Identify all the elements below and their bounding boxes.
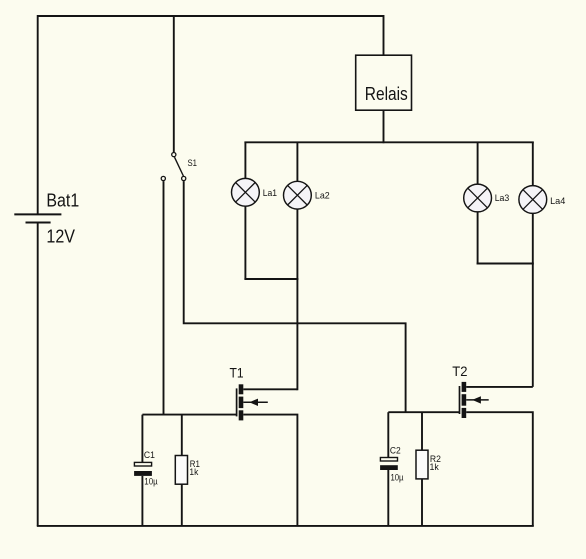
- svg-text:10µ: 10µ: [391, 471, 404, 482]
- wire S1 top feed: [173, 16, 175, 152]
- capacitor C2: [380, 412, 398, 526]
- relay U1 "Relais" box: [356, 55, 412, 110]
- lamp La4: [519, 142, 547, 387]
- transistor T1 (n-channel MOSFET): [237, 384, 268, 420]
- resistor R1: [175, 415, 187, 526]
- wire bracket joining La1 and La2 bottoms: [244, 278, 298, 280]
- svg-text:Bat1: Bat1: [46, 189, 79, 210]
- svg-text:La2: La2: [315, 189, 330, 200]
- svg-text:C1: C1: [144, 449, 155, 460]
- svg-text:T1: T1: [230, 366, 244, 381]
- lamp La3: [464, 142, 492, 264]
- wire top rail from battery to relay: [38, 16, 384, 214]
- wire bracket joining La3 and La4 bottoms: [477, 263, 534, 265]
- transistor T2 (n-channel MOSFET): [460, 382, 489, 418]
- wire bottom rail: [37, 525, 534, 527]
- svg-text:S1: S1: [188, 157, 198, 168]
- resistor R2: [416, 412, 428, 526]
- capacitor C1: [134, 415, 152, 526]
- switch S1: [161, 153, 186, 181]
- wire T1 source to down lead: [243, 415, 297, 526]
- wire S1 left contact down to gate net of T1: [163, 181, 165, 415]
- svg-text:C2: C2: [390, 445, 401, 456]
- battery Bat1: [14, 214, 61, 222]
- wire T2 gate net horizontal: [388, 411, 459, 413]
- svg-text:La4: La4: [550, 195, 565, 206]
- lamp La2: [284, 142, 312, 390]
- svg-text:La1: La1: [263, 187, 277, 198]
- lamp La1: [232, 142, 260, 279]
- wire T2 drain to La4 branch: [466, 386, 533, 388]
- svg-text:T2: T2: [452, 364, 467, 379]
- svg-text:Relais: Relais: [365, 83, 408, 104]
- svg-text:La3: La3: [495, 192, 510, 203]
- wire T1 gate net horizontal: [142, 414, 236, 416]
- svg-text:12V: 12V: [46, 227, 75, 247]
- wire battery minus to bottom rail: [37, 223, 39, 526]
- svg-text:10µ: 10µ: [144, 476, 158, 487]
- wire T1 drain to La2 branch: [243, 388, 297, 390]
- svg-text:1k: 1k: [430, 461, 440, 472]
- wire relay bottom to lamp rail: [383, 110, 385, 143]
- wire T2 source to down lead: [466, 412, 533, 526]
- wire S1 right contact down, across, down to gate net of T2: [184, 181, 406, 412]
- svg-text:1k: 1k: [189, 466, 198, 477]
- wire lamp rail: [244, 141, 533, 143]
